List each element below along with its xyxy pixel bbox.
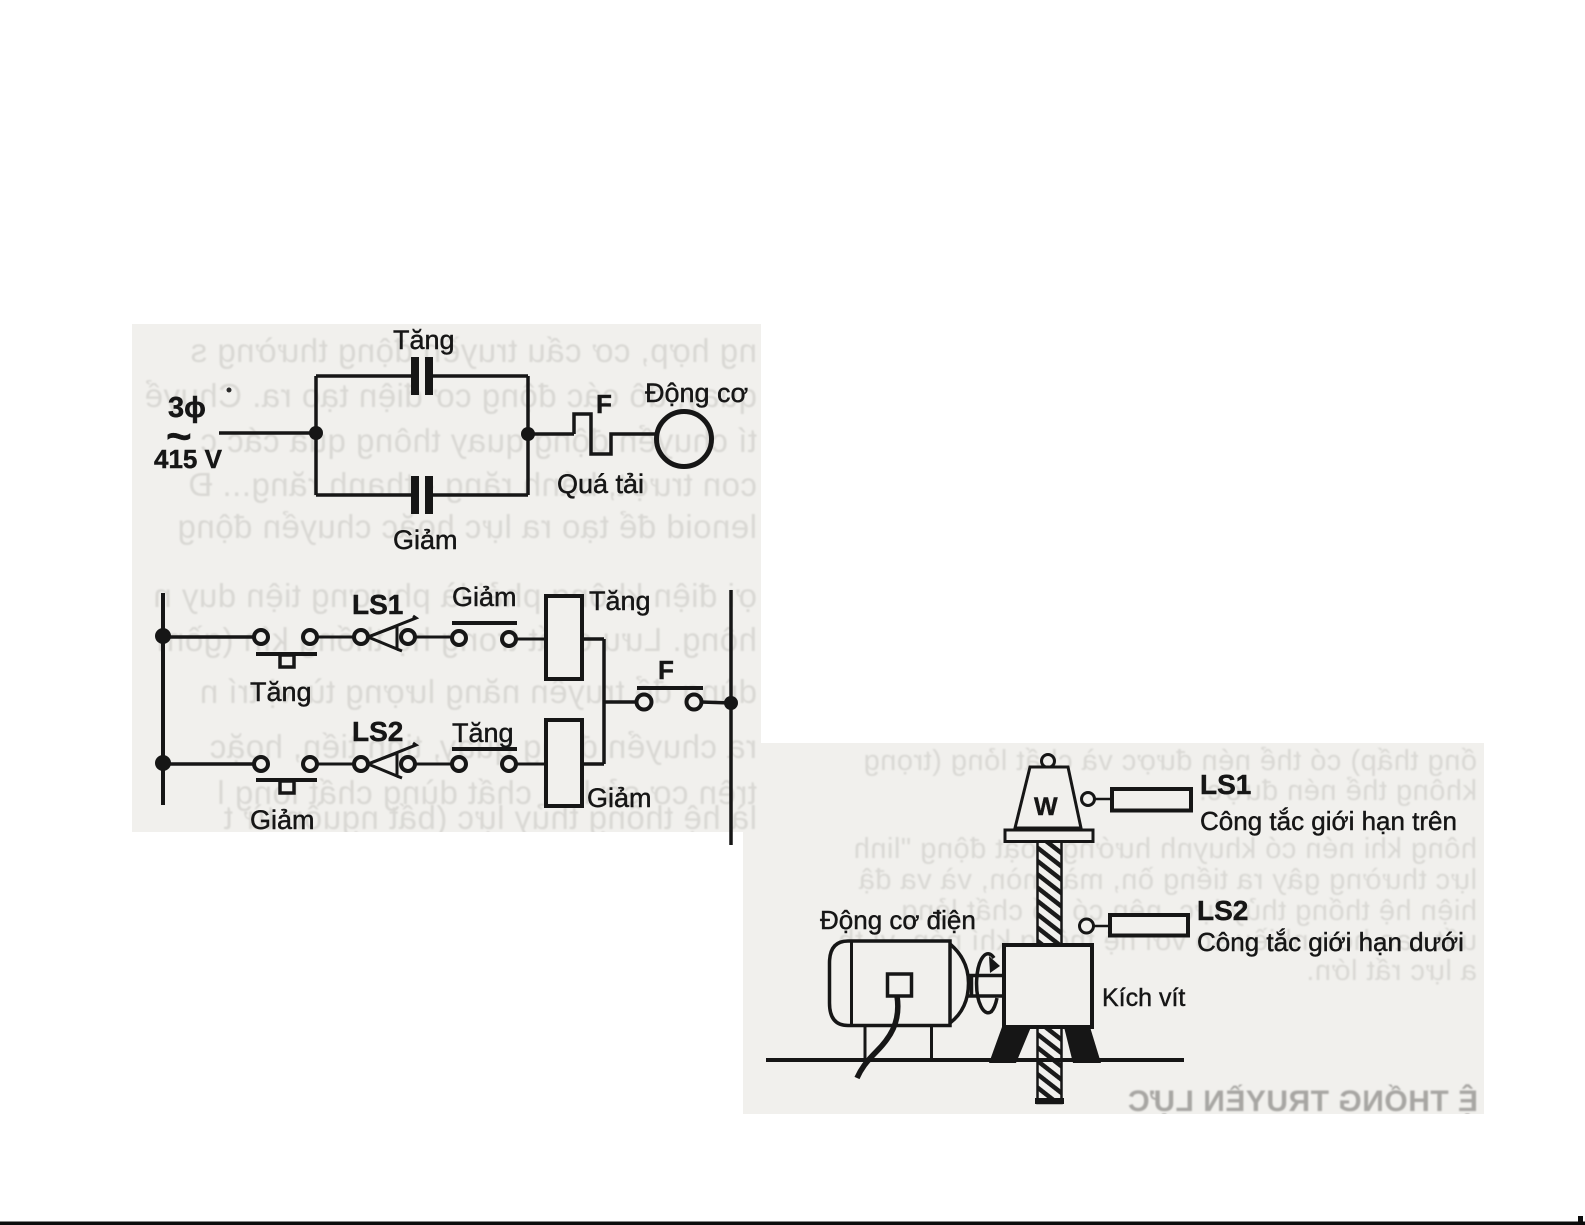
- node B junction dot: [521, 427, 535, 441]
- clutch contact Tang (top): [411, 357, 433, 395]
- svg-text:F: F: [596, 389, 612, 419]
- motor end cap line: [850, 941, 853, 1026]
- source label 3-phase 415V: [154, 392, 223, 474]
- jack gearbox: [1004, 945, 1092, 1027]
- wire rung2 left: [163, 762, 255, 766]
- motor body: [830, 941, 951, 1026]
- motor right leg: [930, 1026, 933, 1060]
- bus vertical wire: [602, 639, 606, 764]
- wire bus to contact F: [604, 700, 637, 704]
- wire coil Giam to bus: [582, 762, 604, 766]
- svg-text:W: W: [1034, 793, 1058, 821]
- BLEED2: [838, 745, 1478, 1118]
- stray dot: [227, 388, 232, 393]
- svg-text:LS1: LS1: [1200, 769, 1251, 800]
- svg-text:Tăng: Tăng: [250, 677, 312, 707]
- svg-text:con trượt, bánh răng - thanh r: con trượt, bánh răng - thanh răng... Đ: [188, 466, 757, 503]
- clutch contact Giam (bottom): [411, 476, 433, 514]
- svg-text:Kích vít: Kích vít: [1102, 984, 1185, 1012]
- limit switch LS2 sensor: [1080, 915, 1189, 936]
- wire parallel loop: [316, 376, 528, 495]
- motor terminal box: [888, 974, 912, 996]
- wire LS1 to Giam NC: [414, 636, 453, 639]
- wire pb2 to LS2: [317, 763, 355, 766]
- scan block 1 background: [132, 324, 761, 832]
- bottom rule tick: [1578, 1216, 1583, 1222]
- wire NC to coil Tang: [516, 638, 546, 641]
- svg-text:Giảm: Giảm: [452, 582, 517, 612]
- relay coil Tang: [546, 596, 582, 679]
- node L2 junction dot: [155, 755, 171, 771]
- svg-text:Giảm: Giảm: [393, 525, 458, 555]
- limit switch LS1: [354, 616, 416, 651]
- overload element Qua tai: [574, 414, 655, 454]
- BLEED1: [144, 332, 757, 836]
- svg-text:lenoid để tạo ra lực hoặc chuy: lenoid để tạo ra lực hoặc chuyển động: [177, 508, 757, 545]
- jack left leg: [989, 1027, 1031, 1063]
- svg-text:LS2: LS2: [352, 716, 403, 747]
- wire NC to coil Giam: [516, 763, 546, 766]
- svg-text:tí chuyển động quay thông qua: tí chuyển động quay thông qua các c: [200, 422, 757, 459]
- svg-text:a lực rất lớn.: a lực rất lớn.: [1306, 955, 1477, 987]
- svg-text:Giảm: Giảm: [250, 805, 315, 835]
- svg-text:415 V: 415 V: [154, 444, 223, 474]
- limit switch LS1 sensor: [1082, 789, 1192, 811]
- scan block 2 background: [743, 743, 1484, 1114]
- motor cable: [857, 996, 898, 1078]
- wire pb to LS1: [317, 636, 355, 639]
- rotation arrowhead: [989, 956, 1000, 973]
- screw lower section: [1038, 1027, 1062, 1103]
- motor bell end: [950, 944, 969, 1023]
- svg-text:Động cơ điện: Động cơ điện: [820, 905, 976, 935]
- node A junction dot: [309, 426, 323, 440]
- wire F to right rail: [701, 702, 731, 703]
- weight ring: [1042, 755, 1055, 768]
- svg-text:LS1: LS1: [352, 589, 403, 620]
- node L1 junction dot: [155, 628, 171, 644]
- svg-text:ống thấp) có thể nén được và c: ống thấp) có thể nén được và chất lỏng (…: [863, 745, 1477, 777]
- motor left leg: [864, 1026, 867, 1060]
- svg-text:Tăng: Tăng: [589, 586, 651, 616]
- svg-text:Công tắc giới hạn trên: Công tắc giới hạn trên: [1200, 806, 1457, 836]
- wire node B to overload: [528, 432, 574, 436]
- NO contact F: [637, 688, 704, 710]
- motor M circle: [657, 412, 712, 467]
- right rail: [729, 590, 733, 845]
- ground line: [766, 1058, 1184, 1062]
- wire coil Tang to bus: [582, 637, 604, 641]
- left rail: [161, 593, 165, 805]
- screw upper section: [1038, 841, 1062, 945]
- shaft coupling: [968, 976, 1004, 997]
- wire rung1 left: [163, 635, 255, 639]
- svg-text:Quá tải: Quá tải: [557, 469, 644, 499]
- platform plate: [1005, 830, 1093, 842]
- svg-text:LS2: LS2: [1197, 895, 1248, 926]
- rotation arrow ellipse: [977, 954, 994, 1013]
- NC contact Tang: [452, 749, 517, 771]
- screw bottom cap: [1035, 1098, 1064, 1104]
- svg-text:Giảm: Giảm: [587, 783, 652, 813]
- svg-text:hông khi nén có khuynh hướng h: hông khi nén có khuynh hướng hoạt động "…: [853, 833, 1477, 865]
- svg-text:Ệ THỐNG TRUYỀN LỰC: Ệ THỐNG TRUYỀN LỰC: [1127, 1084, 1478, 1118]
- svg-text:ng hợp, cơ cấu truyền động thư: ng hợp, cơ cấu truyền động thường s: [190, 332, 757, 369]
- svg-text:Tăng: Tăng: [452, 718, 514, 748]
- wire source to node A: [219, 431, 316, 435]
- svg-text:Công tắc giới hạn dưới: Công tắc giới hạn dưới: [1197, 927, 1464, 957]
- relay coil Giam: [546, 720, 582, 806]
- bottom rule line: [0, 1222, 1585, 1225]
- NC contact Giam: [452, 623, 517, 646]
- node R junction dot: [724, 696, 738, 710]
- svg-text:Tăng: Tăng: [393, 325, 455, 355]
- jack right leg: [1064, 1027, 1101, 1063]
- svg-text:lực thường gây ra tiếng ồn, mà: lực thường gây ra tiếng ồn, mài mòn, và …: [858, 864, 1477, 896]
- svg-text:F: F: [658, 655, 674, 685]
- weight W trapezoid: [1015, 767, 1081, 828]
- limit switch LS2: [354, 743, 416, 778]
- pushbutton Tang NO: [254, 630, 317, 667]
- pushbutton Giam NO: [254, 757, 317, 793]
- wire LS2 to Tang NC: [414, 763, 453, 766]
- svg-text:Động cơ: Động cơ: [645, 378, 748, 408]
